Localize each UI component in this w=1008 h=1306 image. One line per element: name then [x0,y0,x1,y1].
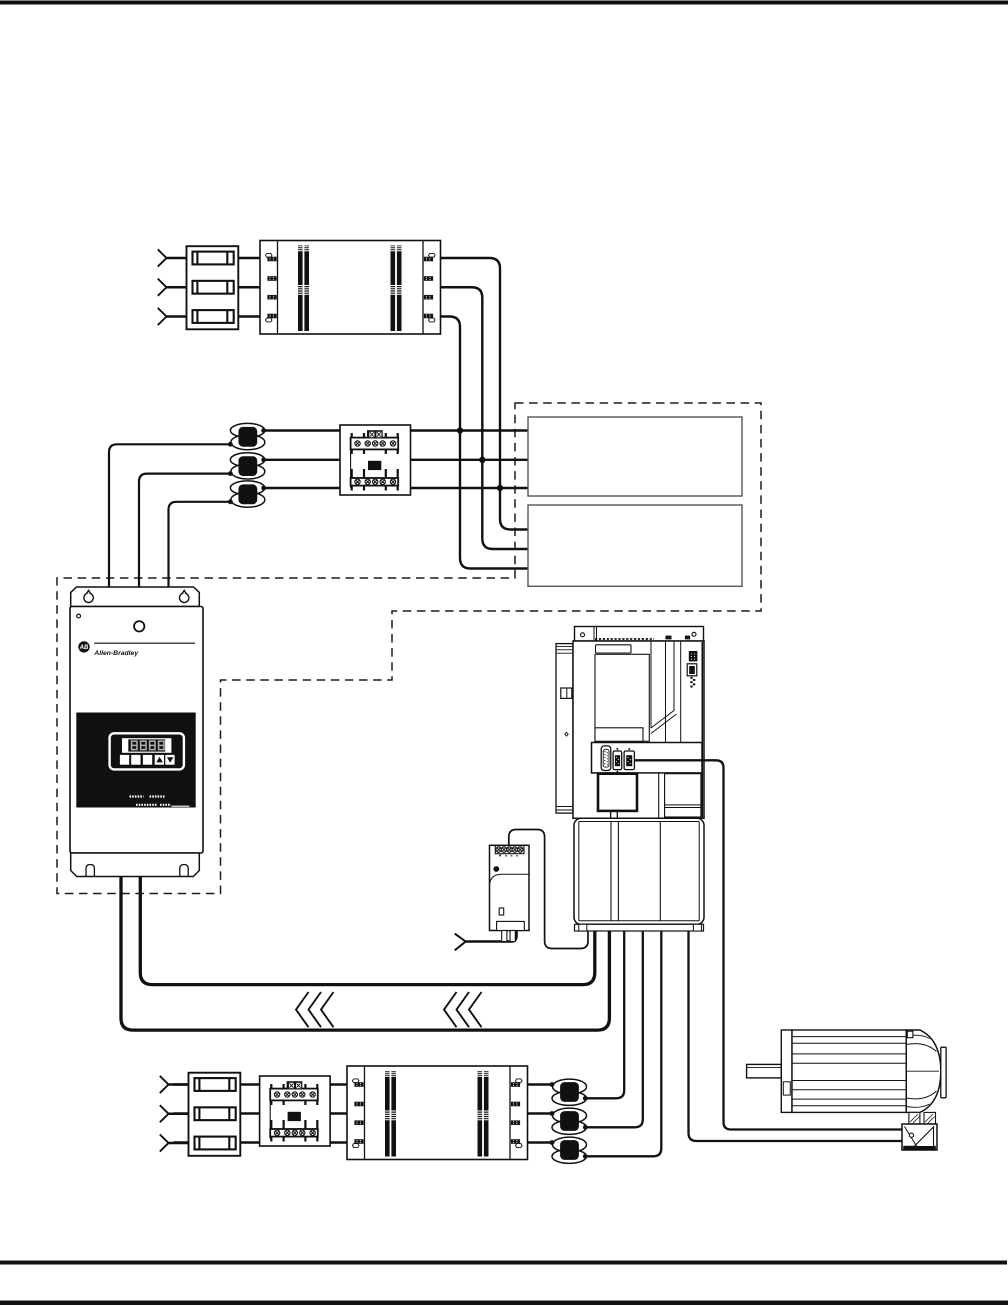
pin zipper strip [690,677,695,688]
PS terminal block [495,846,524,854]
comm port housing [687,664,697,676]
cable-run chevrons group 2 [444,992,482,1027]
wire encoder feedback cable [635,760,906,1129]
dashed system boundary polygon [57,403,761,894]
bell contour 5 [906,1104,929,1107]
keypad button 2 [131,755,140,765]
wire bottom row 1 (fuse to bead) [174,1083,553,1085]
ferrite bead CT2 [228,453,266,479]
AB drive corner screw [77,614,81,618]
AB drive top mounting bracket [71,587,200,607]
chamfer diagonal 2 [651,714,677,734]
drive lower body [574,818,704,924]
AB drive bottom bracket [71,853,200,877]
bell contour 4 [906,1035,929,1038]
connector J3 [624,748,634,769]
motor shaft [747,1064,782,1078]
motor finned body [792,1030,906,1112]
PS foot right [510,931,515,942]
motor rear bell [906,1030,941,1112]
connector J2 [613,748,622,772]
drive top cap [575,627,704,642]
top cap left hole [581,633,585,637]
right mid band [665,805,701,808]
PS body [490,845,530,930]
ferrite bead CT3 [228,481,266,507]
display window [122,738,171,753]
fine print row 1 [130,795,165,797]
bottom flange [575,924,704,931]
PS indicator marks [499,855,518,857]
wire bottom row 2 (fuse to bead) [174,1112,553,1114]
isolation transformer T1 [260,241,441,335]
junction box dark base [903,1146,936,1150]
bell contour 1 [906,1044,936,1052]
lower body inner lip [579,822,699,921]
seven-segment readout [128,739,165,751]
PS logo dot [493,866,499,872]
fine print underline [172,805,190,807]
flange foot left [579,924,587,931]
junction box gland triangle [914,1127,934,1147]
keypad button 1 [120,755,129,765]
wire T1 secondary L3 to drive input box [441,317,529,569]
AB drive body [70,607,203,854]
left panel foot [556,807,577,811]
PS panel seam [490,874,530,884]
ferrite bead FB-U [550,1079,588,1105]
keypad bezel [110,733,184,769]
DB connector [601,746,611,771]
bottom rule upper [0,1261,1007,1265]
top cap clip 2 [685,636,690,640]
AB nameplate rule [94,642,195,644]
drive left side panel [556,644,573,814]
PS switch [499,908,504,915]
PS foot left [502,931,507,942]
control pod [592,743,703,773]
motor rear plate [941,1047,946,1098]
panel seam 2 [665,641,667,743]
chamfer diagonal 1 [651,641,674,728]
bottom rule lower [0,1301,1008,1306]
PS input arrow [455,934,466,951]
junction node L1/row3 [497,485,503,491]
front label [596,645,632,653]
3-phase source + fuse block FU1 (top) [158,246,239,329]
top cap left divider [594,627,597,641]
comm port insert [689,666,695,674]
PS input wire [466,930,517,942]
enclosure box 2 (drive control section) [528,505,742,586]
shaft keyway line [747,1066,782,1068]
junction box inner diagonal [905,1127,917,1147]
bottom slot right [180,865,188,877]
wire T1 secondary L2 to drive input box [441,287,529,549]
contactor M2 (bottom) [260,1076,331,1146]
wire CT row 2 to input box 1 [264,459,528,461]
wire bead2 to DC drive input [139,474,230,590]
left panel clip [561,688,572,698]
panel seam 1 [650,641,652,728]
wire T1 secondary L1 to drive input box [441,258,529,530]
pod seam lines [659,773,665,818]
bottom slot left [86,865,94,877]
svg-text:Allen-Bradley: Allen-Bradley [93,650,139,657]
thick DC bus wire B [121,860,609,1030]
power box leads [611,811,618,818]
AB drive top screw hole [134,621,144,631]
motor junction box [902,1124,937,1150]
wire bead W to drive output [585,929,661,1156]
ferrite bead FB-W [550,1137,588,1163]
svg-text:AB: AB [79,645,89,651]
wire bead3 to DC drive input [169,502,231,590]
comm slot connector pins [691,653,695,659]
wire bead V to drive output [585,929,643,1127]
isolation transformer T2 [347,1066,528,1160]
junction node L3/row1 [457,427,463,433]
wire 24V supply to drive [509,830,588,949]
fine print row 2 [136,804,171,806]
power terminal box [598,774,637,811]
flange foot right [693,924,701,931]
keypad button 3 [143,755,152,765]
top cap clip 1 [666,636,672,640]
thick DC bus wire A [140,860,595,985]
wire bottom row 3 (fuse to bead) [174,1141,553,1143]
wire CT row 3 to input box 1 [264,487,528,489]
contactor M1 (middle) [340,425,411,495]
junction neck left [909,1112,920,1124]
keypad down button [165,755,174,765]
drive main front panel [573,641,704,818]
DB connector pin field [603,749,609,767]
drive right depth edge [701,642,703,818]
motor fins [792,1037,906,1106]
ferrite bead CT1 [228,423,266,449]
bell top tab [907,1031,913,1038]
junction neck right [924,1112,936,1124]
enclosure box 1 (drive input section) [528,417,742,496]
left panel ridges [556,646,573,653]
wire drive to motor junction box [689,929,906,1141]
panel seam 3 [680,641,682,745]
cable-run chevrons group 1 [296,992,334,1027]
wire CT row 1 to input box 1 [264,429,528,431]
wire bead1 to DC drive input [109,444,230,590]
motor front flange [781,1030,792,1112]
keypad up button [155,755,164,765]
top cap vent dashes [595,638,654,640]
3-phase source + fuse block FU2 (bottom) [160,1073,241,1156]
top border bar [0,1,1008,5]
front cover rect [595,654,649,741]
comm slot dark connector [689,651,698,661]
wire FU1 to T1 [238,258,260,317]
ferrite bead FB-V [550,1108,588,1134]
lower body ribs [611,822,660,921]
bell contour 2 [906,1091,936,1099]
left panel clip notch [566,688,568,698]
AB drive black front panel [76,713,195,808]
bell contour 3 [906,1070,939,1072]
junction box hole [909,1133,913,1137]
top cap right hole [692,632,696,636]
wire bead U to drive output [585,929,624,1098]
PS bottom recess [497,921,525,930]
right mid compartment [665,774,701,817]
AB logo medallion [78,641,89,652]
AB drive keyhole slot left [84,590,93,602]
AB drive keyhole slot right [180,590,189,602]
junction node L2/row2 [479,457,485,463]
lower label [595,728,643,742]
flange detail [783,1082,790,1095]
left panel diamond [565,732,568,736]
